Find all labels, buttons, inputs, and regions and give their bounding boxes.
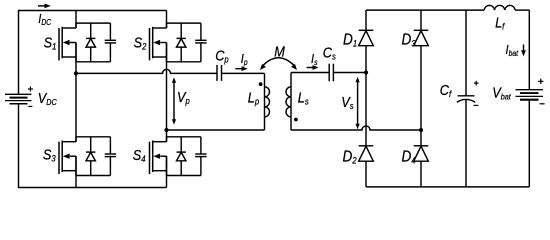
svg-text:M: M: [274, 43, 285, 60]
